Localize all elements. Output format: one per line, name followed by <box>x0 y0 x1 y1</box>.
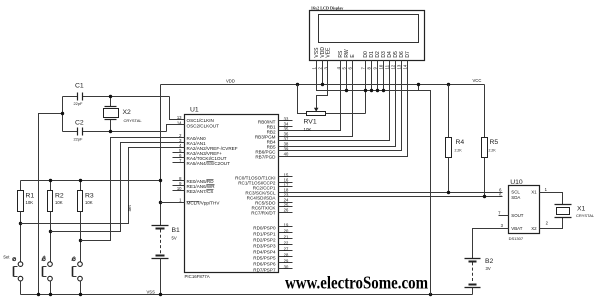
svg-text:RB7/PGD: RB7/PGD <box>255 154 276 159</box>
svg-text:10K: 10K <box>55 200 63 205</box>
svg-text:RD5/PSP5: RD5/PSP5 <box>253 255 276 260</box>
svg-text:13: 13 <box>397 64 402 69</box>
svg-text:OSC1/CLKIN: OSC1/CLKIN <box>187 118 214 123</box>
svg-text:D7: D7 <box>405 51 411 58</box>
svg-text:12: 12 <box>391 64 396 69</box>
svg-text:22pF: 22pF <box>74 101 83 106</box>
svg-text:RD2/PSP2: RD2/PSP2 <box>253 237 276 242</box>
svg-text:2: 2 <box>318 67 323 70</box>
svg-text:U1: U1 <box>190 107 199 114</box>
svg-text:22pF: 22pF <box>74 136 83 141</box>
svg-text:B2: B2 <box>485 258 494 265</box>
svg-text:RD1/PSP1: RD1/PSP1 <box>253 231 276 236</box>
svg-text:21: 21 <box>284 234 289 239</box>
svg-text:CRYSTAL: CRYSTAL <box>124 118 143 123</box>
svg-text:5V: 5V <box>172 236 177 241</box>
svg-text:10: 10 <box>177 186 182 191</box>
svg-text:2: 2 <box>546 221 549 226</box>
svg-text:3V: 3V <box>486 266 491 271</box>
svg-text:1: 1 <box>312 67 317 70</box>
svg-text:R5: R5 <box>490 139 499 146</box>
svg-text:10K: 10K <box>304 127 312 132</box>
svg-text:U10: U10 <box>510 179 523 186</box>
svg-text:E: E <box>350 54 356 58</box>
svg-text:8: 8 <box>367 67 372 70</box>
svg-text:PIC16F877A: PIC16F877A <box>185 274 210 279</box>
svg-text:9: 9 <box>373 67 378 70</box>
svg-text:20: 20 <box>284 228 289 233</box>
svg-text:Set: Set <box>3 255 10 260</box>
svg-text:2.2K: 2.2K <box>455 149 463 153</box>
svg-text:DS1307: DS1307 <box>509 236 524 241</box>
svg-text:29: 29 <box>284 258 289 263</box>
svg-text:VEE: VEE <box>326 47 332 58</box>
svg-text:www.electroSome.com: www.electroSome.com <box>285 273 428 293</box>
svg-text:40: 40 <box>284 151 289 156</box>
svg-text:7: 7 <box>361 67 366 70</box>
svg-text:R1: R1 <box>26 193 35 200</box>
svg-text:X1: X1 <box>531 190 537 195</box>
svg-text:RD4/PSP4: RD4/PSP4 <box>253 249 276 254</box>
svg-text:10K: 10K <box>85 200 93 205</box>
svg-text:16x2 LCD Display: 16x2 LCD Display <box>311 5 344 10</box>
svg-text:-: - <box>73 254 75 260</box>
svg-text:3: 3 <box>501 223 504 228</box>
svg-text:SDA: SDA <box>511 195 520 200</box>
svg-text:14: 14 <box>403 64 408 69</box>
svg-text:SOUT: SOUT <box>511 213 524 218</box>
svg-text:OSC2/CLKOUT: OSC2/CLKOUT <box>187 123 220 128</box>
svg-text:6: 6 <box>348 67 353 70</box>
svg-text:X2: X2 <box>123 109 132 116</box>
svg-text:VCC: VCC <box>473 78 482 83</box>
svg-text:RD7/PSP7: RD7/PSP7 <box>253 267 276 272</box>
svg-text:19: 19 <box>284 222 289 227</box>
svg-text:RC7/RX/DT: RC7/RX/DT <box>251 210 275 215</box>
svg-text:10: 10 <box>379 64 384 69</box>
svg-text:CRYSTAL: CRYSTAL <box>576 213 595 218</box>
svg-text:7: 7 <box>498 210 501 215</box>
svg-text:VDD: VDD <box>226 79 235 84</box>
svg-text:RD3/PSP3: RD3/PSP3 <box>253 243 276 248</box>
svg-text:Set: Set <box>127 204 132 211</box>
svg-text:RV1: RV1 <box>304 119 317 126</box>
svg-text:R4: R4 <box>456 139 465 146</box>
svg-text:VSS: VSS <box>147 290 156 295</box>
svg-text:+: + <box>43 254 46 260</box>
svg-text:28: 28 <box>284 252 289 257</box>
svg-text:30: 30 <box>284 264 289 269</box>
svg-text:MCLR/Vpp/THV: MCLR/Vpp/THV <box>187 200 221 205</box>
svg-text:5: 5 <box>342 67 347 70</box>
svg-text:26: 26 <box>284 207 289 212</box>
svg-text:1: 1 <box>545 187 548 192</box>
svg-text:11: 11 <box>385 64 390 69</box>
svg-text:X2: X2 <box>531 226 537 231</box>
svg-text:C1: C1 <box>75 83 84 90</box>
svg-text:SCL: SCL <box>511 190 520 195</box>
svg-text:B1: B1 <box>172 227 181 234</box>
svg-text:R3: R3 <box>85 193 94 200</box>
svg-text:22: 22 <box>284 240 289 245</box>
svg-text:X1: X1 <box>577 205 586 212</box>
svg-text:27: 27 <box>284 246 289 251</box>
svg-text:VBAT: VBAT <box>511 226 522 231</box>
svg-text:2.2K: 2.2K <box>489 149 497 153</box>
svg-text:1: 1 <box>179 197 182 202</box>
svg-text:RD0/PSP0: RD0/PSP0 <box>253 225 276 230</box>
svg-text:10K: 10K <box>26 200 34 205</box>
svg-text:R2: R2 <box>55 193 64 200</box>
svg-text:D6: D6 <box>399 51 405 58</box>
svg-text:RD6/PSP6: RD6/PSP6 <box>253 261 276 266</box>
svg-text:C2: C2 <box>75 119 84 126</box>
